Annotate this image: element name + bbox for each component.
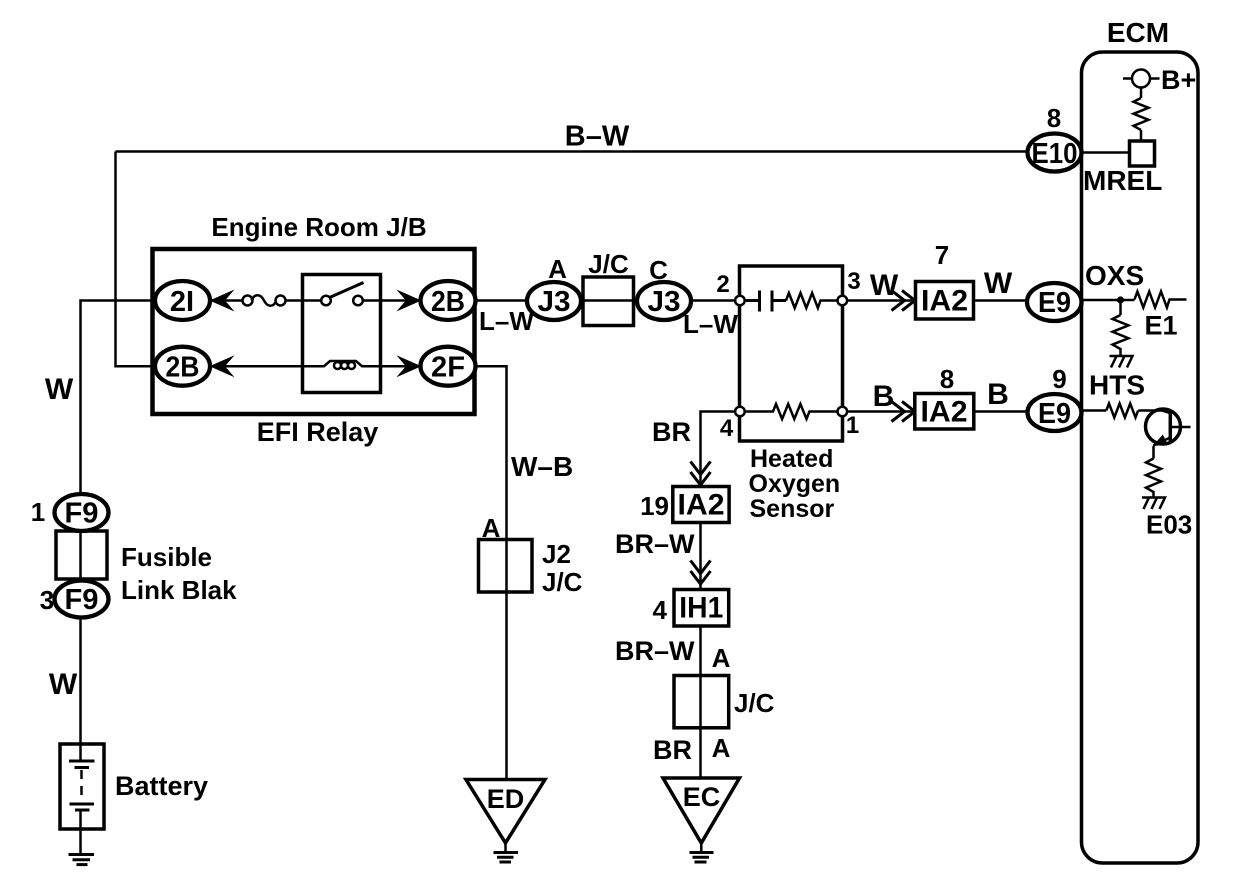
relay EFI box xyxy=(303,275,381,393)
junction connector oval J3 C xyxy=(637,282,691,320)
resistor to chassis ground E03 xyxy=(1146,459,1161,498)
wire resistor to MREL xyxy=(1140,130,1143,141)
transistor collector out to right xyxy=(1170,426,1190,429)
node 1 xyxy=(838,407,848,417)
battery box xyxy=(60,744,104,829)
wire node1 to IA2 no8 xyxy=(848,410,915,413)
svg-text:2B: 2B xyxy=(431,286,465,318)
wire battery to ground xyxy=(79,810,82,854)
svg-text:E03: E03 xyxy=(1146,510,1192,540)
fuse left terminal circle xyxy=(243,296,253,306)
fuse oval F9 bottom xyxy=(55,581,109,618)
capacitor element in sensor xyxy=(745,291,787,312)
svg-text:W: W xyxy=(45,373,74,406)
resistor E1 xyxy=(1135,292,1187,308)
svg-text:B+: B+ xyxy=(1161,65,1196,95)
connector box IA2 no19 xyxy=(673,487,729,523)
MREL relay contact square xyxy=(1130,141,1155,166)
svg-text:A: A xyxy=(712,733,731,763)
wire HTS into ECM xyxy=(1082,409,1107,412)
svg-text:MREL: MREL xyxy=(1083,165,1162,196)
chassis ground under E03 resistor xyxy=(1142,498,1165,510)
wire B-W horizontal from left drop to E10 xyxy=(116,150,1030,153)
svg-text:8: 8 xyxy=(1047,103,1061,133)
svg-text:EFI Relay: EFI Relay xyxy=(257,417,379,447)
svg-text:A: A xyxy=(712,643,731,673)
svg-text:E10: E10 xyxy=(1032,138,1078,170)
svg-text:B: B xyxy=(873,380,895,413)
fuse right terminal circle xyxy=(276,296,286,306)
battery plate long top xyxy=(69,760,95,763)
switch blade xyxy=(330,283,364,298)
fusible link box xyxy=(56,531,107,579)
wire E10 to MREL xyxy=(1082,151,1130,154)
svg-text:1: 1 xyxy=(31,497,45,527)
svg-text:ECM: ECM xyxy=(1107,17,1169,48)
svg-text:W: W xyxy=(984,267,1013,300)
svg-text:J/C: J/C xyxy=(542,567,583,597)
svg-text:IA2: IA2 xyxy=(921,285,968,318)
svg-text:Link Blak: Link Blak xyxy=(121,575,237,605)
wire B+ to resistor xyxy=(1140,88,1143,99)
svg-text:F9: F9 xyxy=(65,498,99,530)
chevron arrows into IA2 no19 xyxy=(691,462,711,486)
svg-text:B–W: B–W xyxy=(565,121,630,153)
node 3 xyxy=(838,296,848,306)
ground triangle ED xyxy=(466,780,545,844)
resistor HTS xyxy=(1106,404,1138,418)
svg-text:IA2: IA2 xyxy=(678,489,725,522)
node 4 xyxy=(735,407,745,417)
svg-text:W–B: W–B xyxy=(511,451,573,482)
svg-text:BR: BR xyxy=(652,417,691,447)
svg-text:L–W: L–W xyxy=(479,306,534,336)
svg-text:3: 3 xyxy=(847,268,860,295)
svg-text:J3: J3 xyxy=(648,286,681,318)
svg-text:E9: E9 xyxy=(1038,287,1071,319)
heated oxygen sensor box xyxy=(740,266,843,441)
svg-text:J/C: J/C xyxy=(734,688,775,718)
junction box J2 J/C xyxy=(479,540,533,593)
connector oval 2I xyxy=(155,281,210,320)
svg-text:E9: E9 xyxy=(1038,398,1071,430)
connector oval 2B left xyxy=(155,347,210,386)
wire node4 down BR chain xyxy=(701,412,735,488)
svg-text:W: W xyxy=(870,269,899,302)
svg-text:EC: EC xyxy=(683,782,721,812)
Engine Room J/B box xyxy=(153,249,475,414)
battery dashed center xyxy=(80,770,83,801)
resistor sensor top xyxy=(786,293,840,308)
connector oval E10 xyxy=(1028,134,1082,172)
svg-text:E1: E1 xyxy=(1145,311,1178,341)
resistor to chassis ground E1 xyxy=(1113,315,1129,355)
power symbol B+ circle xyxy=(1123,77,1160,80)
coil loop 2 xyxy=(341,362,348,369)
svg-text:OXS: OXS xyxy=(1085,260,1144,291)
battery plate long bottom xyxy=(70,803,95,806)
wire IA2 no19 to IH1 xyxy=(699,523,702,591)
svg-text:Fusible: Fusible xyxy=(121,542,212,572)
svg-text:2F: 2F xyxy=(431,352,465,384)
wire node3 to IA2 no7 xyxy=(848,299,916,302)
svg-text:BR–W: BR–W xyxy=(615,636,695,666)
arrowhead into 2B right xyxy=(396,290,421,312)
wire relay bottom row through coil xyxy=(116,361,507,780)
junction connector oval J3 A xyxy=(527,282,581,320)
svg-text:HTS: HTS xyxy=(1089,370,1145,401)
svg-text:Sensor: Sensor xyxy=(750,495,835,523)
svg-text:L–W: L–W xyxy=(683,309,738,339)
svg-text:2B: 2B xyxy=(166,352,200,384)
wire OXS into ECM xyxy=(1082,299,1135,302)
connector box IA2 no8 xyxy=(915,394,974,430)
wire switch to 2B and J3 chain xyxy=(362,299,740,302)
arrowhead into 2I xyxy=(210,290,235,312)
svg-text:2: 2 xyxy=(716,271,729,298)
arrowhead into 2F xyxy=(396,355,421,377)
svg-text:J3: J3 xyxy=(538,286,571,318)
svg-text:Engine Room J/B: Engine Room J/B xyxy=(211,212,426,242)
switch contact circle left xyxy=(321,296,331,306)
wire IH1 to J/C to EC xyxy=(699,626,702,777)
svg-text:4: 4 xyxy=(653,595,668,625)
battery plate short top xyxy=(75,766,90,769)
connector box IH1 xyxy=(674,590,729,627)
wire IA2 no8 to E9 xyxy=(974,410,1029,413)
svg-text:A: A xyxy=(548,254,567,284)
svg-text:Oxygen: Oxygen xyxy=(749,470,841,498)
transistor emitter with arrow xyxy=(1153,438,1170,446)
svg-text:Battery: Battery xyxy=(115,771,208,801)
transistor circle xyxy=(1146,409,1181,444)
fuse wavy element xyxy=(252,295,277,306)
ground symbol below EC xyxy=(700,843,703,852)
svg-text:Heated: Heated xyxy=(750,445,833,473)
wire resistor to transistor base xyxy=(1138,411,1170,414)
svg-text:IA2: IA2 xyxy=(921,396,968,429)
junction box J/C top xyxy=(583,277,634,326)
ground symbol below ED xyxy=(504,843,507,852)
svg-text:2I: 2I xyxy=(170,286,194,318)
wire emitter down xyxy=(1152,446,1155,459)
chevron arrows into IA2 no8 xyxy=(892,402,916,422)
fuse oval F9 top xyxy=(55,494,109,531)
wire left drop from B-W down to 2B row xyxy=(116,152,158,367)
chevron arrows into IA2 no7 xyxy=(892,291,916,311)
switch contact circle right xyxy=(353,296,363,306)
svg-text:BR: BR xyxy=(653,735,692,765)
connector oval E9 pin HTS xyxy=(1028,394,1082,431)
svg-text:ED: ED xyxy=(487,784,525,814)
svg-text:W: W xyxy=(49,668,78,701)
chevron arrows into IH1 xyxy=(691,561,711,585)
svg-text:1: 1 xyxy=(846,412,859,439)
svg-text:7: 7 xyxy=(935,240,949,270)
wire fuse to switch contact xyxy=(286,299,323,302)
connector oval 2F xyxy=(421,347,476,386)
wire relay top row 2I to fuse xyxy=(157,299,243,302)
svg-text:19: 19 xyxy=(640,491,669,521)
svg-text:BR–W: BR–W xyxy=(615,529,695,559)
svg-text:B: B xyxy=(987,378,1009,411)
svg-text:4: 4 xyxy=(720,415,734,442)
ECM box xyxy=(1082,52,1199,863)
svg-text:J/C: J/C xyxy=(588,249,629,279)
junction dot OXS xyxy=(1117,296,1124,303)
battery plate short bottom xyxy=(75,809,90,812)
svg-text:F9: F9 xyxy=(65,584,99,616)
junction box J/C bottom xyxy=(674,676,729,728)
svg-text:J2: J2 xyxy=(542,539,571,569)
svg-text:IH1: IH1 xyxy=(679,592,723,625)
ground triangle EC xyxy=(663,778,740,843)
svg-text:9: 9 xyxy=(1052,364,1066,394)
node 2 xyxy=(735,296,745,306)
chassis ground under E1 resistor xyxy=(1110,356,1133,368)
connector oval E9 pin OXS xyxy=(1027,283,1082,321)
wire junction down to resistor xyxy=(1119,301,1122,316)
connector box IA2 no7 xyxy=(916,282,974,320)
transistor base bar xyxy=(1169,413,1173,442)
svg-text:8: 8 xyxy=(940,364,954,394)
connector oval 2B right xyxy=(421,281,476,320)
ground below battery xyxy=(69,855,95,865)
resistor below B+ xyxy=(1134,98,1149,130)
wire W feed from battery column to 2I xyxy=(81,301,158,762)
arrowhead into 2B left xyxy=(210,355,235,377)
coil loop 3 xyxy=(348,362,355,369)
coil loop 1 xyxy=(334,362,341,369)
resistor sensor bottom (heater) xyxy=(740,404,842,419)
svg-text:3: 3 xyxy=(40,585,54,615)
wire IA2 no7 to E9 xyxy=(974,299,1030,302)
